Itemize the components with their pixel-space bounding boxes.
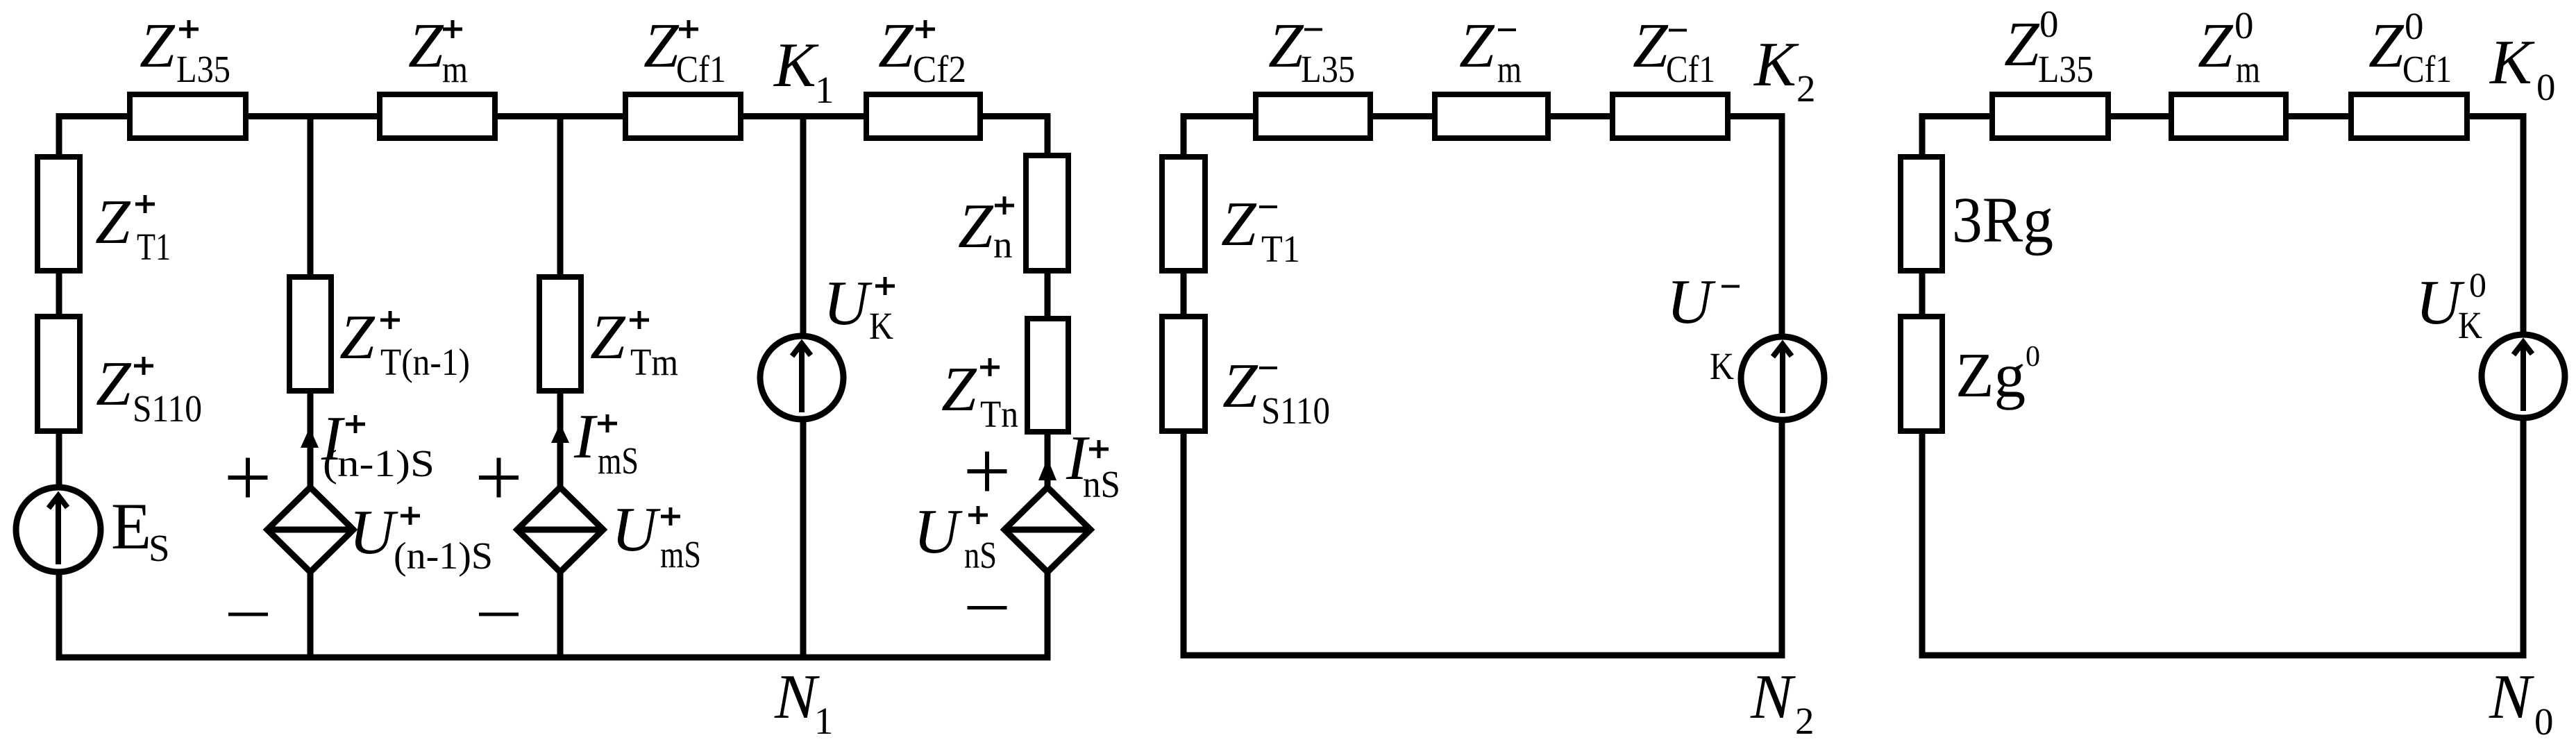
svg-text:Z: Z	[95, 187, 131, 257]
svg-text:Z: Z	[590, 302, 626, 372]
svg-text:K: K	[869, 305, 893, 347]
svg-text:N: N	[774, 662, 820, 732]
svg-text:Z: Z	[1221, 189, 1257, 259]
svg-text:U: U	[914, 496, 963, 566]
svg-text:Z: Z	[1268, 10, 1304, 81]
svg-text:1: 1	[814, 700, 834, 742]
svg-text:1: 1	[815, 69, 834, 111]
svg-text:Tn: Tn	[980, 393, 1018, 435]
svg-text:0: 0	[2026, 341, 2040, 373]
svg-text:Z: Z	[96, 348, 132, 419]
svg-text:0: 0	[2234, 4, 2254, 47]
svg-text:L35: L35	[176, 48, 230, 90]
svg-text:Z: Z	[2198, 10, 2234, 81]
svg-text:0: 0	[2039, 3, 2059, 45]
svg-text:Tm: Tm	[630, 341, 678, 383]
svg-text:Z: Z	[2004, 9, 2040, 79]
svg-text:Z: Z	[643, 10, 680, 81]
svg-text:Z: Z	[1633, 10, 1669, 81]
svg-text:Cf1: Cf1	[2402, 48, 2452, 90]
svg-text:T(n-1): T(n-1)	[380, 341, 470, 383]
svg-text:Cf1: Cf1	[676, 48, 726, 90]
svg-text:S110: S110	[1261, 389, 1330, 432]
svg-text:K: K	[1710, 345, 1734, 387]
svg-text:U: U	[349, 497, 398, 567]
svg-text:T1: T1	[137, 226, 171, 268]
svg-text:2: 2	[1795, 700, 1815, 742]
svg-text:Z: Z	[2368, 10, 2405, 81]
svg-text:2: 2	[1796, 67, 1816, 110]
svg-text:Z: Z	[958, 191, 994, 261]
svg-text:Z: Z	[408, 10, 444, 81]
svg-text:K: K	[2458, 304, 2482, 346]
svg-text:m: m	[2236, 48, 2260, 90]
svg-text:m: m	[1497, 48, 1522, 90]
svg-text:K: K	[2489, 27, 2535, 97]
svg-text:Z: Z	[1459, 10, 1495, 81]
svg-text:E: E	[111, 489, 151, 563]
svg-text:L35: L35	[2038, 48, 2094, 90]
svg-text:K: K	[773, 30, 819, 100]
svg-text:Z: Z	[941, 354, 977, 424]
svg-text:S: S	[149, 527, 170, 569]
svg-text:N: N	[1750, 662, 1796, 732]
svg-text:0: 0	[2405, 5, 2424, 47]
svg-text:U: U	[1667, 267, 1716, 337]
svg-text:I: I	[573, 401, 598, 471]
svg-text:0: 0	[2469, 265, 2486, 304]
svg-text:(n-1)S: (n-1)S	[394, 535, 493, 577]
svg-text:Cf2: Cf2	[913, 48, 966, 90]
svg-text:m: m	[442, 48, 468, 90]
svg-text:Z: Z	[339, 302, 376, 372]
svg-text:Z: Z	[140, 10, 176, 81]
svg-text:L35: L35	[1301, 48, 1355, 90]
svg-text:U: U	[612, 494, 661, 564]
svg-text:nS: nS	[964, 534, 997, 576]
svg-text:0: 0	[2536, 66, 2556, 108]
svg-text:U: U	[823, 268, 873, 338]
svg-text:0: 0	[2534, 700, 2554, 743]
svg-text:T1: T1	[1261, 228, 1300, 270]
svg-text:Z: Z	[878, 10, 914, 81]
svg-text:N: N	[2489, 662, 2534, 732]
svg-text:Cf1: Cf1	[1666, 48, 1715, 90]
svg-text:3Rg: 3Rg	[1952, 185, 2053, 256]
svg-text:Zg: Zg	[1955, 340, 2026, 410]
svg-text:nS: nS	[1083, 463, 1120, 505]
svg-text:n: n	[993, 224, 1013, 266]
svg-text:mS: mS	[598, 439, 639, 482]
svg-text:mS: mS	[660, 533, 701, 575]
svg-text:S110: S110	[133, 387, 202, 430]
svg-text:Z: Z	[1222, 351, 1258, 421]
svg-text:(n-1)S: (n-1)S	[323, 442, 435, 485]
svg-text:K: K	[1753, 29, 1799, 99]
